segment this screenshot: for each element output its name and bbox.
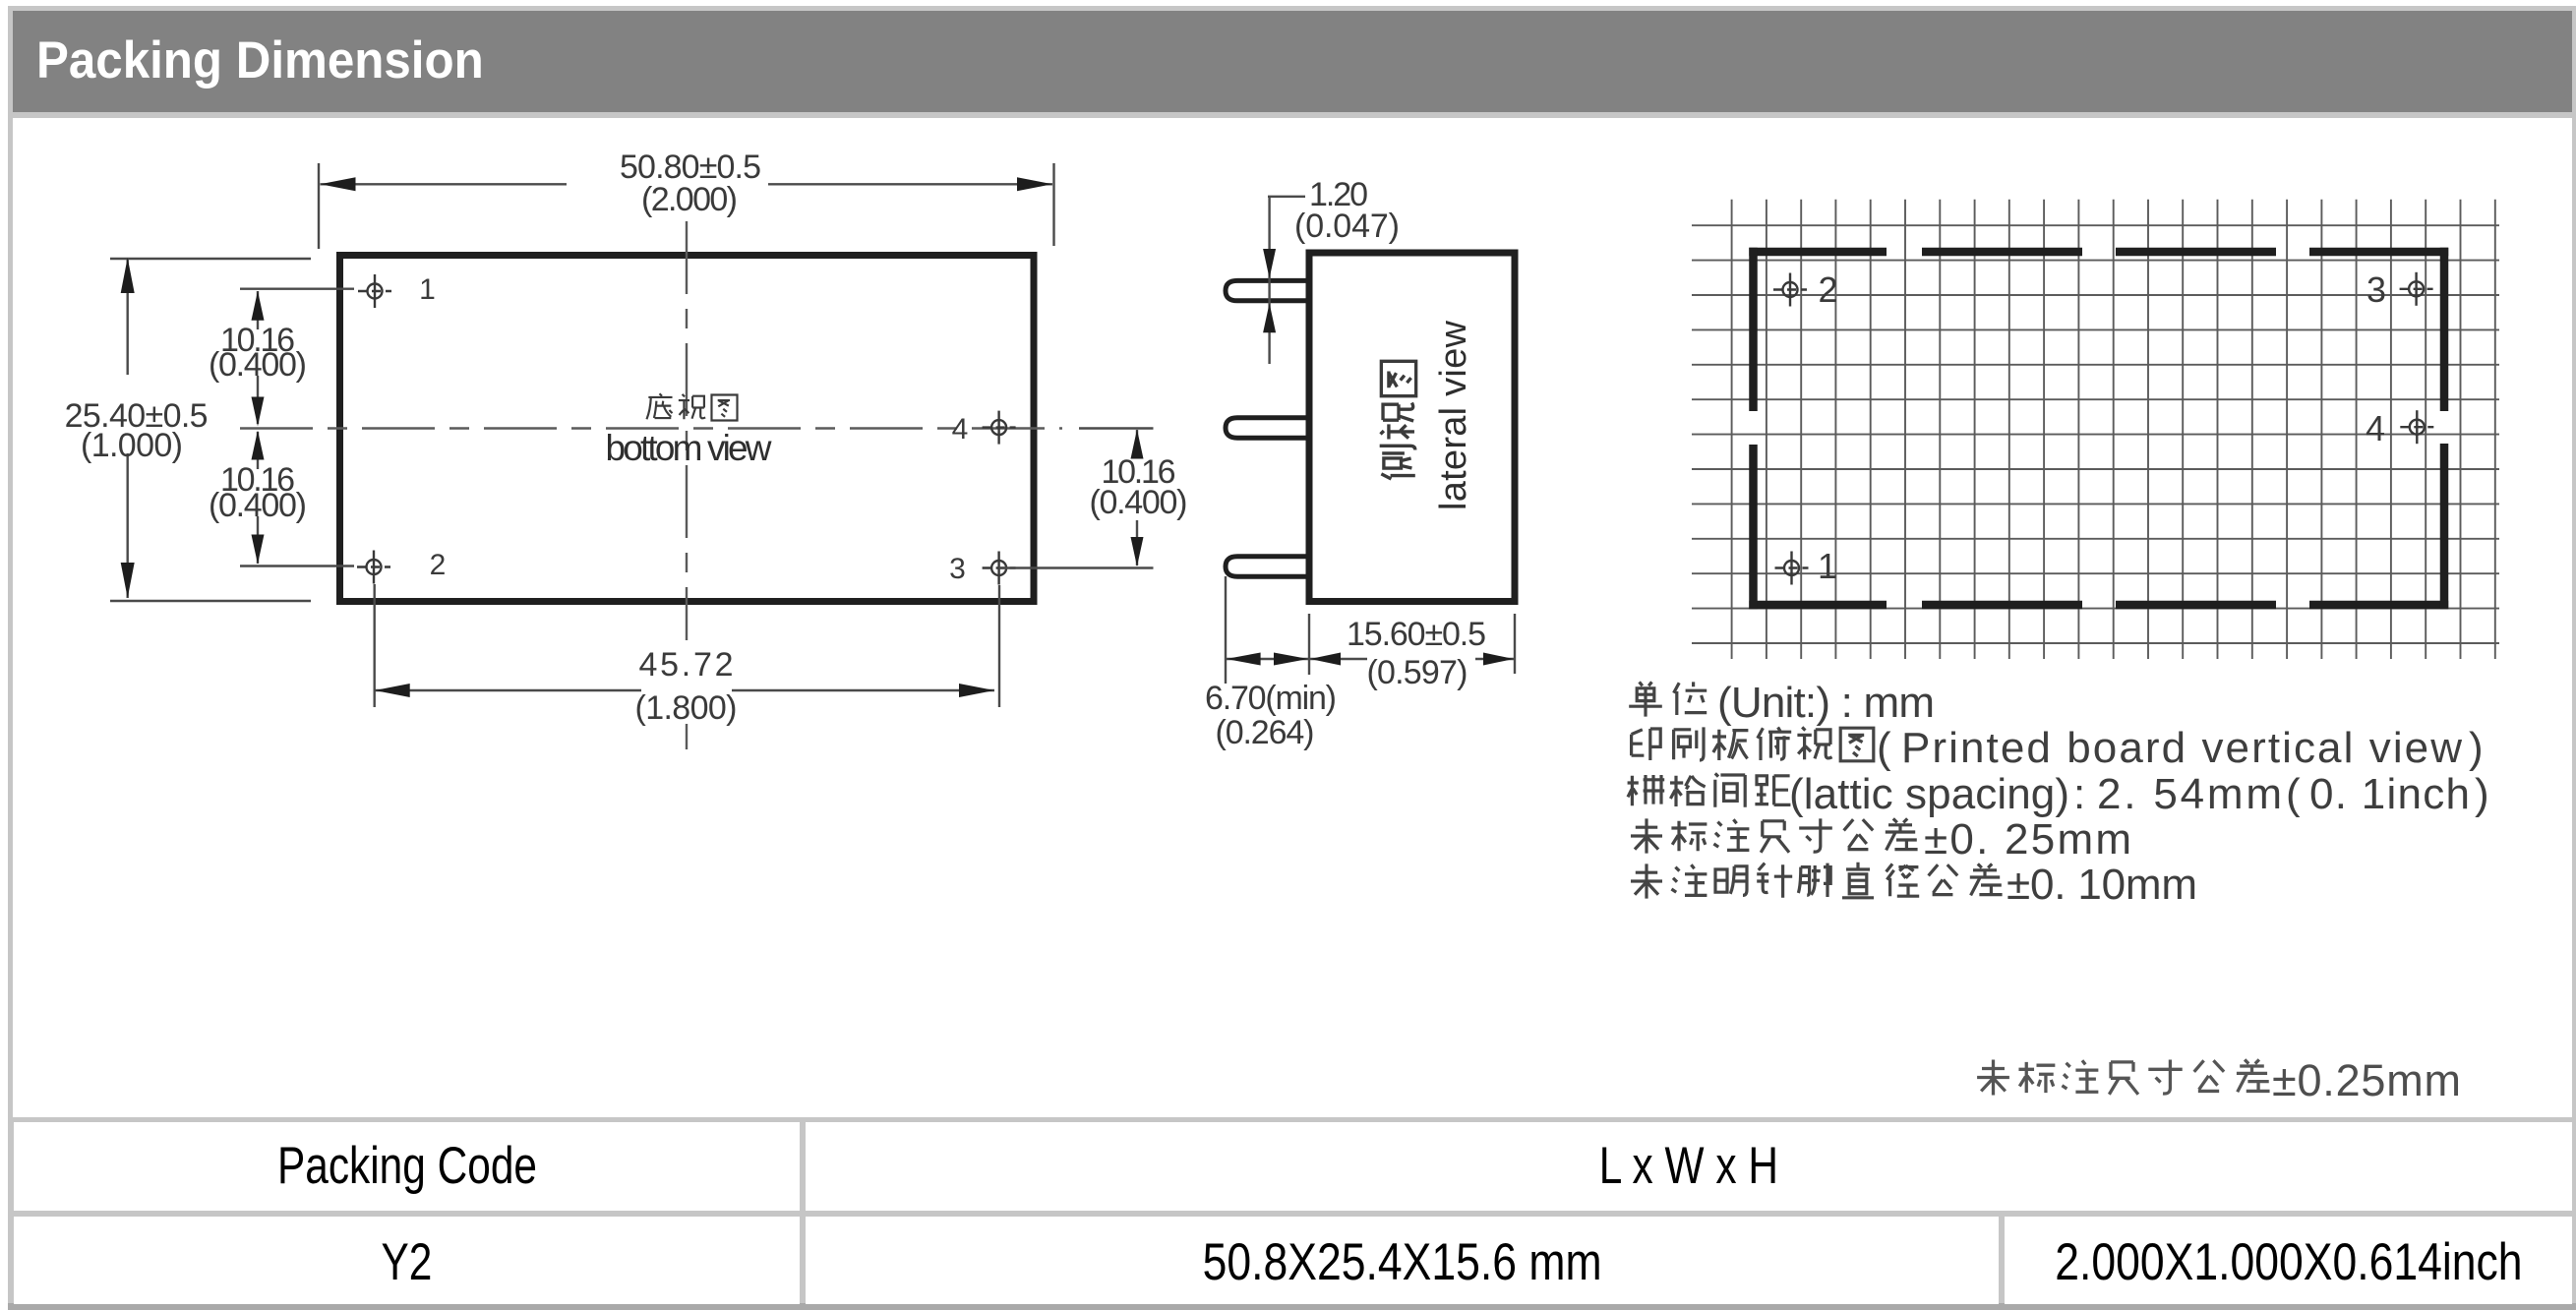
dim 15.60 dimension line [1309, 658, 1515, 660]
svg-text:(Unit:) : mm: (Unit:) : mm [1717, 679, 1935, 727]
note line 4: tolerance 0.25 [1631, 818, 1918, 853]
grid pin 3 [2400, 272, 2433, 306]
module outline rectangle (bottom view) [340, 256, 1035, 602]
dim 10.16 right text [1090, 453, 1188, 521]
lateral pin bottom [1226, 557, 1309, 576]
dim 50.80 dimension line [321, 183, 1053, 185]
table text [14, 1136, 800, 1196]
grid pin 2 [1773, 273, 1807, 307]
svg-text:3: 3 [2366, 269, 2386, 310]
svg-text:): ) [2475, 770, 2489, 818]
pin3 extension line right [999, 566, 1154, 568]
svg-text:45.72: 45.72 [639, 646, 734, 684]
svg-text:15.60±0.5: 15.60±0.5 [1347, 616, 1486, 653]
dim 15.60 arrows [1310, 653, 1514, 666]
svg-text:3: 3 [949, 553, 966, 585]
note line 1: unit mm [1629, 682, 1707, 716]
dim 25.40 dimension line [126, 258, 128, 598]
svg-text:(lattic spacing): (lattic spacing) [1789, 770, 2069, 818]
svg-text:(1.000): (1.000) [81, 427, 183, 464]
module dashed outline right [2440, 248, 2449, 609]
vertical centerline [686, 221, 688, 749]
lateral label 侧视图 rotated [1380, 361, 1416, 479]
dim 10.16 upper-left arrows [252, 291, 265, 427]
svg-text:(0.264): (0.264) [1216, 714, 1315, 751]
dim 15.60 extension lines [1309, 614, 1515, 675]
svg-text:6.70(min): 6.70(min) [1205, 680, 1337, 717]
svg-text:(: ( [2286, 770, 2301, 818]
svg-text:bottom view: bottom view [606, 428, 772, 468]
table row 2 [14, 1217, 800, 1304]
svg-text:±0. 10mm: ±0. 10mm [2007, 861, 2197, 909]
grid pin 1 [1775, 552, 1809, 585]
svg-text:): ) [2469, 724, 2484, 772]
bottom view label 底视图 [646, 393, 737, 420]
pin 2 marker [357, 551, 390, 584]
dim 1.20 text [1294, 176, 1400, 245]
module dashed outline top [1749, 248, 2448, 257]
svg-text:±0.25mm: ±0.25mm [2272, 1055, 2461, 1105]
dim 1.20 arrows [1263, 249, 1276, 332]
dim 10.16 right line [1136, 430, 1138, 566]
svg-text:(0.400): (0.400) [1090, 484, 1188, 521]
dim 45.72 extension lines [375, 584, 999, 707]
lateral pin top [1226, 280, 1309, 300]
lateral pin middle [1226, 418, 1309, 438]
module dashed outline left [1749, 248, 1758, 609]
dim 25.40 extension lines [110, 259, 311, 601]
table row 1 [14, 1122, 800, 1211]
svg-text:1: 1 [419, 273, 436, 306]
grid pin labels [1818, 269, 2386, 586]
svg-text:Printed board vertical view: Printed board vertical view [1901, 724, 2462, 772]
dim 6.70 arrows [1227, 653, 1308, 666]
note line 5: pin diameter tolerance 0.10 [1631, 863, 2003, 899]
svg-text:(2.000): (2.000) [641, 181, 738, 218]
pin 1 marker [358, 274, 391, 308]
svg-text:(1.800): (1.800) [635, 689, 738, 727]
svg-text:2: 2 [430, 549, 447, 581]
dim 10.16 upper-left text [209, 322, 307, 384]
svg-text:(0.400): (0.400) [209, 487, 307, 524]
header bar [13, 11, 2572, 112]
svg-text:(0.400): (0.400) [209, 346, 307, 384]
dim 6.70 text [1205, 680, 1337, 751]
dim 50.80 text [620, 149, 761, 218]
dim 45.72 dimension line [375, 689, 994, 691]
pin2 extension line [240, 565, 354, 566]
svg-text:±0. 25mm: ±0. 25mm [1924, 815, 2131, 863]
dim 1.20 leader [1268, 197, 1305, 364]
module dashed outline bottom [1749, 601, 2448, 610]
pin 3 marker [983, 552, 1016, 585]
dim 25.40 text [65, 397, 209, 464]
svg-text:4: 4 [2366, 408, 2385, 448]
grid pin 4 [2400, 410, 2433, 444]
svg-text:(0.597): (0.597) [1367, 654, 1468, 691]
dim 10.16 right arrows [1131, 430, 1144, 567]
dim 6.70 extension line [1225, 576, 1227, 684]
dim 10.16 lower-left text [209, 461, 307, 524]
svg-text::: : [2073, 770, 2085, 818]
svg-text:(0.047): (0.047) [1294, 208, 1400, 245]
pin labels [419, 273, 968, 585]
dim 15.60 text [1347, 616, 1486, 691]
dim 45.72 arrows [375, 684, 994, 697]
dim 10.16 lower-left arrows [252, 431, 265, 565]
pin 4 marker [983, 411, 1016, 445]
dim 50.80 extension lines [319, 163, 1054, 249]
horizontal centerline [240, 427, 1062, 429]
svg-text:2: 2 [1818, 269, 1837, 310]
pin1 extension line [240, 288, 354, 290]
svg-text:0. 1inch: 0. 1inch [2309, 770, 2470, 818]
svg-text:2. 54mm: 2. 54mm [2097, 770, 2282, 818]
white drawing area [13, 118, 2572, 1117]
svg-text:lateral view: lateral view [1433, 320, 1474, 510]
svg-text:(: ( [1877, 724, 1891, 772]
dim 6.70 dimension line [1226, 658, 1309, 660]
note line 2: printed board vertical view [1632, 727, 1874, 760]
bottom right note: tolerance 0.25 [1977, 1059, 2269, 1095]
note line 3: lattic spacing [1628, 773, 1791, 806]
lateral body [1309, 253, 1515, 602]
dim 10.16 lower-left line [257, 432, 259, 564]
dim 45.72 text [635, 646, 738, 727]
dim 50.80 arrows [321, 177, 1053, 191]
dim 10.16 upper-left line [257, 291, 259, 424]
svg-text:1: 1 [1818, 546, 1837, 586]
dim 25.40 arrows [121, 258, 135, 598]
svg-text:4: 4 [952, 413, 969, 446]
